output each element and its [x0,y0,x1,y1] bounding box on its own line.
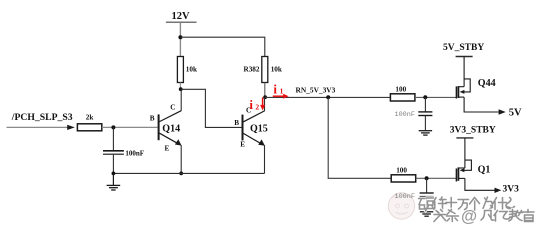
svg-text:10k: 10k [271,65,282,73]
wire Q14 collector [180,90,182,111]
capacitor 100nF (left) [103,127,144,173]
wire node to Q15 base [181,89,242,127]
transistor Q14 [150,103,182,152]
wire 100 to Q1 gate [416,177,457,179]
svg-text:2: 2 [255,102,259,111]
pmos Q1 [456,138,490,182]
wire 100 to Q44 gate [415,96,457,98]
resistor R382 10k [244,57,282,83]
svg-text:100nF: 100nF [395,111,415,119]
current annotation i1 (red) [273,81,289,98]
ground (left) [107,173,121,190]
power symbol 5V_STBY [443,43,484,57]
node branch junction [326,95,330,99]
svg-text:2k: 2k [86,114,94,122]
resistor 2k [77,114,101,131]
svg-text:B: B [234,119,239,127]
svg-text:3V3: 3V3 [503,185,520,195]
svg-text:E: E [240,141,245,149]
svg-text:1: 1 [280,87,284,96]
input port /PCH_SLP_S3 [7,112,75,130]
svg-text:100: 100 [396,166,407,174]
svg-text:RN_5V_3V3: RN_5V_3V3 [296,86,336,95]
svg-text:100nF: 100nF [395,193,415,201]
wire Q44 drain to output [464,97,499,112]
wire emitter rail [113,172,264,174]
svg-text:5V_STBY: 5V_STBY [443,43,484,53]
wire Q1 drain to output [465,178,495,190]
transistor Q15 [234,106,268,148]
svg-text:100nF: 100nF [125,149,144,157]
svg-text:3V3_STBY: 3V3_STBY [450,126,496,136]
wire branch down to 3V3 row [328,97,391,178]
power symbol 12V [166,11,197,22]
pmos Q44 [456,57,495,99]
output port 5V [499,107,522,118]
watermark text line 1 [419,197,515,211]
node bottom cap junction [425,176,429,180]
resistor 100 (bottom) [391,166,416,182]
svg-text:E: E [165,144,170,152]
svg-text:C: C [170,103,175,111]
wire 10k to node [179,83,181,90]
node 12V junction [178,35,182,39]
ground (bottom right) [420,212,433,216]
svg-text:i: i [273,81,277,96]
svg-text:Q14: Q14 [162,123,180,134]
wire R382 to node [264,83,266,98]
svg-text:5V: 5V [509,107,522,118]
node top cap junction [423,95,427,99]
wire Q14 emitter down [180,145,182,173]
svg-text:B: B [150,115,155,123]
watermark logo [388,193,414,219]
node Q14 collector junction [179,87,183,91]
node RN_5V_3V3 junction [263,95,267,99]
resistor 10k (left) [177,57,197,83]
node emitter rail junction [179,172,183,176]
node ground junction [112,172,116,176]
svg-text:R382: R382 [244,65,260,73]
svg-text:i: i [249,97,253,112]
resistor 100 (top) [390,85,415,101]
ground (top right) [419,131,432,135]
wire main net y=97 [265,96,390,98]
node cap junction [111,125,115,129]
wire Q15 collector [264,98,266,112]
svg-text:Q15: Q15 [250,123,268,134]
wire 12V to resistor [179,23,181,57]
power symbol 3V3_STBY [450,126,496,138]
current annotation i2 (red) [249,97,265,112]
capacitor 100nF (top right) [395,97,433,130]
wire 2k to Q14 base [102,126,158,128]
output port 3V3 [495,185,520,195]
svg-text:@: @ [461,208,477,226]
wire 12V rail to R382 [180,37,264,56]
svg-text:12V: 12V [172,11,191,22]
svg-text:100: 100 [395,85,406,93]
watermark text line 2 [434,210,534,222]
svg-text:/PCH_SLP_S3: /PCH_SLP_S3 [11,112,73,123]
svg-text:Q44: Q44 [478,78,496,89]
svg-text:Q1: Q1 [478,164,491,175]
wire Q15 emitter down to rail [264,145,266,173]
capacitor 100nF (bottom right) [395,178,434,211]
svg-text:10k: 10k [186,65,197,73]
